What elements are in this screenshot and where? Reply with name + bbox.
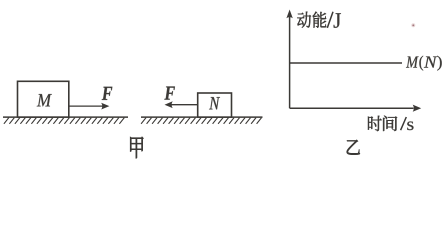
axis label char 能: [313, 12, 327, 28]
x-axis (time): [290, 105, 422, 112]
kinetic energy horizontal line: [290, 62, 402, 64]
axis label char 间: [383, 116, 397, 131]
axis label J: [334, 13, 341, 27]
axis label slash of /s: [401, 117, 407, 130]
axis label char 动: [297, 12, 311, 28]
label F (force on M): [102, 87, 112, 100]
caption yi 乙: [347, 140, 360, 155]
block M: [18, 81, 69, 117]
axis label s: [407, 122, 413, 131]
ground left (under block M): [3, 117, 128, 124]
caption jia 甲: [130, 137, 143, 158]
curve label M(N): [406, 56, 419, 67]
force arrow F on M (pointing right): [69, 103, 109, 110]
axis label slash of /J: [327, 12, 333, 28]
y-axis (kinetic energy): [286, 10, 292, 109]
label F (force on N): [164, 86, 174, 99]
block N: [198, 93, 232, 117]
axis label char 时: [368, 116, 382, 131]
force arrow F on N (pointing left): [165, 101, 198, 108]
label N (block N): [209, 97, 220, 109]
stray red speck (scan artifact): [411, 23, 415, 27]
label M (block M): [37, 94, 52, 106]
ground right (under block N): [141, 117, 263, 124]
